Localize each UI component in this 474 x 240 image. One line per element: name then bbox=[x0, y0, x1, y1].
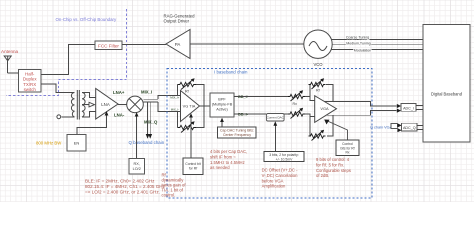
ADC_I input arrows bbox=[397, 104, 401, 108]
VG TIA amplifier bbox=[181, 91, 200, 122]
mixer bbox=[127, 96, 144, 113]
wire PA to VCO bbox=[190, 43, 304, 45]
svg-text:switch: switch bbox=[24, 87, 37, 92]
LNA bbox=[96, 89, 118, 120]
svg-text:Current DAC: Current DAC bbox=[267, 115, 285, 119]
svg-text:MIX_I: MIX_I bbox=[141, 90, 152, 95]
svg-text:VG TIA: VG TIA bbox=[183, 104, 196, 109]
svg-text:V-,DC) Cancelation: V-,DC) Cancelation bbox=[262, 173, 299, 178]
svg-text:+/- 10.5mV: +/- 10.5mV bbox=[276, 157, 293, 161]
svg-text:(Multiple-FB: (Multiple-FB bbox=[212, 103, 233, 107]
svg-text:as needed: as needed bbox=[210, 165, 230, 170]
svg-text:Configurable steps: Configurable steps bbox=[316, 168, 351, 173]
VGA amplifier bbox=[315, 96, 337, 123]
FCC filter bbox=[95, 41, 122, 50]
BB_I- rail bbox=[234, 113, 266, 115]
svg-text:LO/2: LO/2 bbox=[133, 167, 141, 171]
Q chain branch pair bbox=[148, 102, 151, 136]
svg-text:for Rf, 5 for Rx.: for Rf, 5 for Rx. bbox=[316, 162, 344, 167]
svg-text:ADC_Q: ADC_Q bbox=[403, 126, 416, 130]
BB_I+ rail bbox=[234, 96, 288, 98]
wire secondary to LNA bbox=[82, 93, 96, 118]
svg-text:Modulation: Modulation bbox=[354, 48, 372, 52]
svg-text:BPF: BPF bbox=[218, 98, 226, 102]
3 bits box bbox=[264, 152, 304, 162]
svg-text:Control bit: Control bit bbox=[185, 162, 201, 166]
Q chain VGA stub box bbox=[391, 123, 397, 128]
ADC_Q box bbox=[402, 123, 417, 131]
svg-text:MIX_Q: MIX_Q bbox=[144, 120, 158, 125]
VGA output minus bbox=[326, 111, 397, 116]
svg-text:Center Frequency: Center Frequency bbox=[223, 133, 251, 137]
svg-text:Antenna: Antenna bbox=[1, 49, 19, 54]
control bits for Rf Rx box bbox=[336, 140, 359, 155]
svg-text:LNA: LNA bbox=[101, 102, 110, 107]
ADC_Q input arrows bbox=[397, 123, 401, 127]
wire switch to balun bbox=[41, 84, 70, 93]
svg-text:Amplification: Amplification bbox=[262, 184, 286, 189]
balun ground port bbox=[62, 116, 75, 118]
balun secondary winding bbox=[82, 93, 85, 117]
cap DAC wire to BPF bbox=[221, 122, 223, 127]
VGA feedback top Rf bbox=[310, 85, 333, 102]
svg-text:Medium Tuning: Medium Tuning bbox=[346, 42, 371, 46]
svg-text:for Rf: for Rf bbox=[189, 166, 197, 170]
svg-text:Output Driver: Output Driver bbox=[164, 19, 190, 24]
svg-text:4 bits per Cap DAC,: 4 bits per Cap DAC, bbox=[210, 149, 247, 154]
wire to TIA plus bbox=[158, 96, 181, 100]
EN control wire to LNA bbox=[77, 115, 107, 135]
svg-text:BLE: IF = 2MHz, Ch0= 2.402 GH: BLE: IF = 2MHz, Ch0= 2.402 GHz bbox=[85, 179, 155, 184]
svg-text:EN: EN bbox=[74, 141, 80, 146]
svg-text:before VGA: before VGA bbox=[262, 178, 284, 183]
svg-text:BB_I+: BB_I+ bbox=[238, 95, 250, 99]
svg-text:VGA: VGA bbox=[320, 106, 329, 111]
wire FCC filter to PA bbox=[122, 44, 166, 46]
balun core bbox=[77, 90, 79, 120]
Rx top resistor bbox=[288, 94, 305, 98]
svg-text:MIX_I+: MIX_I+ bbox=[170, 96, 179, 100]
LO wire from RX LO/2 to mixer bbox=[136, 116, 138, 159]
medium tuning wire bbox=[332, 43, 423, 45]
TIA feedback top Rf resistor bbox=[178, 85, 205, 107]
svg-text:Q chain VGA: Q chain VGA bbox=[370, 125, 393, 129]
svg-text:VCO: VCO bbox=[313, 62, 323, 67]
svg-text:Rf: Rf bbox=[316, 89, 320, 93]
wire antenna to switch bbox=[8, 72, 19, 74]
antenna bbox=[4, 56, 11, 73]
svg-text:9 bits of control: 4: 9 bits of control: 4 bbox=[316, 157, 350, 162]
RX LO/2 box bbox=[129, 158, 145, 174]
svg-text:LNA-: LNA- bbox=[114, 112, 125, 117]
svg-text:ADC_I: ADC_I bbox=[403, 106, 414, 110]
digital baseband bbox=[423, 25, 470, 143]
svg-text:of 2dB.: of 2dB. bbox=[316, 173, 329, 178]
VGA feedback bottom Rf bbox=[310, 115, 333, 136]
EN box bbox=[67, 135, 86, 152]
modulation wire bbox=[332, 48, 424, 50]
svg-text:On-Chip vs. Off-Chip Boundary: On-Chip vs. Off-Chip Boundary bbox=[56, 17, 117, 22]
svg-text:Digital Baseband: Digital Baseband bbox=[431, 92, 463, 97]
Rx bottom resistor bbox=[288, 112, 305, 116]
on-chip off-chip boundary dashed line bbox=[6, 9, 127, 96]
svg-text:=> LO/2 = 2.400 GHz, or 2.401: => LO/2 = 2.400 GHz, or 2.401 GHz. bbox=[85, 190, 160, 195]
3 bits wire to current DAC bbox=[274, 126, 276, 152]
ADC_I box bbox=[401, 103, 416, 111]
svg-text:1.5MHz to 4.5MHz: 1.5MHz to 4.5MHz bbox=[210, 160, 245, 165]
svg-text:LNA+: LNA+ bbox=[113, 90, 125, 95]
svg-text:802.15.4: IF = 4MHz, Ch1 = 2.4: 802.15.4: IF = 4MHz, Ch1 = 2.405 GHz bbox=[85, 184, 166, 189]
wire TIA to BPF bbox=[200, 105, 211, 107]
control bit wire to TIA bbox=[190, 118, 192, 159]
ADC_Q to baseband wires bbox=[417, 125, 423, 129]
svg-text:shift IF from ~: shift IF from ~ bbox=[210, 154, 236, 159]
control bits wire to VGA bbox=[328, 121, 348, 140]
svg-text:I baseband chain: I baseband chain bbox=[214, 69, 248, 74]
svg-text:BB_I-: BB_I- bbox=[238, 113, 249, 117]
svg-text:FCC Filter: FCC Filter bbox=[98, 43, 119, 48]
coarse tuning wire bbox=[332, 39, 424, 41]
svg-text:3 bits, 2 for polarity:: 3 bits, 2 for polarity: bbox=[269, 153, 299, 157]
svg-text:MIX_I-: MIX_I- bbox=[171, 108, 179, 112]
svg-text:RX,: RX, bbox=[134, 162, 140, 166]
half-duplex TX/RX switch bbox=[18, 69, 41, 92]
I baseband chain dashed box bbox=[167, 69, 372, 199]
svg-text:Rx: Rx bbox=[345, 151, 349, 155]
PA amplifier bbox=[166, 30, 190, 59]
balun primary winding bbox=[71, 93, 74, 117]
svg-text:Active): Active) bbox=[216, 108, 228, 112]
wire to TIA minus bbox=[158, 102, 181, 112]
VGA output plus bbox=[325, 101, 397, 106]
BPF box bbox=[210, 93, 234, 117]
svg-text:Coarse Tuning: Coarse Tuning bbox=[346, 35, 369, 39]
svg-text:Rf: Rf bbox=[185, 90, 189, 94]
mixer output pair bbox=[143, 99, 158, 102]
svg-text:800 MHz BW: 800 MHz BW bbox=[36, 140, 62, 145]
wire switch to FCC filter bbox=[41, 45, 95, 75]
rails to VGA bbox=[305, 97, 315, 117]
VCO bbox=[304, 30, 332, 58]
svg-text:control.: control. bbox=[162, 193, 176, 198]
svg-text:PA: PA bbox=[175, 42, 181, 47]
control bit for Rf box bbox=[183, 158, 203, 174]
svg-text:Rx: Rx bbox=[293, 102, 298, 106]
ADC_I to baseband wires bbox=[416, 105, 423, 109]
TIA feedback bottom Rf resistor bbox=[178, 106, 205, 128]
wire LNA to mixer bbox=[118, 103, 127, 105]
svg-text:Q baseband chain: Q baseband chain bbox=[129, 140, 165, 145]
current DAC box bbox=[266, 114, 284, 122]
balun center tap arrow bbox=[82, 104, 89, 106]
cap DAC tuning box bbox=[218, 127, 257, 138]
svg-text:Cap DAC Tuning Bits:: Cap DAC Tuning Bits: bbox=[220, 129, 254, 133]
svg-text:DC Offset (V+,DC -: DC Offset (V+,DC - bbox=[262, 168, 298, 173]
